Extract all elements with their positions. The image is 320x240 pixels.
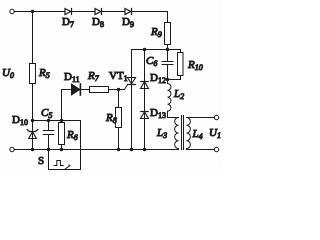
pulse waveform glyph bbox=[54, 161, 63, 166]
input terminal bottom-left bbox=[10, 147, 14, 151]
wire R5 bottom to node bbox=[32, 84, 34, 121]
node A (top junction) bbox=[31, 10, 34, 13]
zener D10 bbox=[32, 121, 34, 150]
output terminal bottom bbox=[214, 147, 218, 151]
node D12 branch bbox=[143, 48, 146, 51]
wire R9 bottom bbox=[167, 45, 169, 50]
wire L4 bottom to terminal bbox=[187, 149, 215, 150]
inductor L2 bbox=[167, 80, 169, 84]
node C6/R10/L2 bbox=[166, 78, 169, 81]
input terminal top-left bbox=[10, 9, 14, 13]
transformer core bbox=[181, 116, 183, 150]
wire L4 top to terminal bbox=[187, 117, 215, 119]
node gate/R8 bbox=[117, 88, 120, 91]
resistor R7 bbox=[90, 87, 109, 93]
wire mid horizontal node bbox=[132, 49, 181, 51]
transformer primary L3 bbox=[175, 117, 179, 148]
node C5 top bbox=[47, 119, 50, 122]
switch blade bbox=[65, 165, 70, 169]
output terminal top bbox=[214, 115, 218, 119]
wire D7-D8 bbox=[72, 11, 96, 13]
wire D8-D9 bbox=[102, 11, 126, 13]
node R6/D11 top bbox=[60, 119, 63, 122]
diode D13 bbox=[141, 111, 148, 113]
wire D11 anode down to node bbox=[62, 90, 72, 121]
bus junction dots bbox=[31, 148, 34, 151]
node R5/D10 bbox=[31, 119, 34, 122]
diode D9 bbox=[125, 9, 131, 15]
wire top bus bbox=[14, 11, 65, 13]
node R9/C6 bbox=[166, 48, 169, 51]
wire gate run bbox=[109, 89, 125, 91]
thyristor VT1 bbox=[131, 50, 133, 150]
resistor R6 bbox=[61, 121, 63, 123]
resistor R8 bbox=[118, 90, 120, 108]
diode D8 bbox=[95, 9, 101, 15]
svg-text:S: S bbox=[38, 155, 44, 167]
resistor R10 bbox=[180, 50, 182, 53]
wire R5 top lead bbox=[32, 12, 34, 64]
resistor R9 bbox=[165, 23, 171, 45]
wire C5/R6 node horizontal bbox=[33, 120, 81, 122]
wire top right corner down to R9 bbox=[132, 12, 168, 23]
transformer secondary L4 bbox=[187, 117, 191, 148]
diode D11 bbox=[72, 84, 80, 95]
capacitor C6 bbox=[167, 50, 169, 62]
resistor R5 bbox=[30, 64, 36, 84]
pulse source S box bbox=[49, 121, 81, 170]
capacitor C5 bbox=[48, 121, 50, 131]
wire D11 to R7 bbox=[82, 89, 90, 91]
bottom bus wire bbox=[14, 149, 178, 151]
diode D7 bbox=[65, 9, 71, 15]
diode D12 bbox=[144, 50, 146, 150]
